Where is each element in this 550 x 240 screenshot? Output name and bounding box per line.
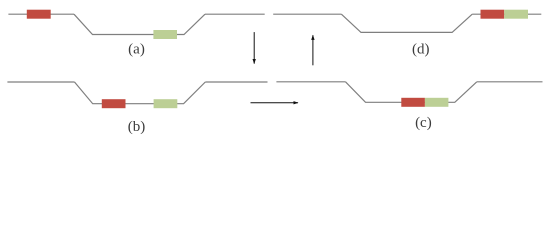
wire c-right — [477, 81, 543, 83]
svg-text:(a): (a) — [128, 41, 145, 57]
panel (b) — [7, 82, 267, 104]
green block a — [153, 30, 177, 39]
panel (d) — [273, 14, 541, 32]
red block a — [27, 10, 51, 19]
wire d-left — [273, 13, 341, 15]
arrow b to c (right) — [251, 102, 299, 104]
green block b — [154, 99, 178, 108]
arrow c to d (up) — [312, 35, 314, 65]
wire c-loop — [346, 82, 477, 103]
panel (a) — [8, 14, 264, 34]
wire a-left — [8, 13, 74, 15]
wire c-left — [276, 81, 345, 83]
wire d-loop — [341, 14, 472, 32]
svg-text:(d): (d) — [412, 41, 430, 57]
green block d — [504, 10, 528, 19]
wire d-right — [472, 13, 541, 15]
wire a-right — [205, 13, 265, 15]
svg-text:(b): (b) — [128, 119, 146, 135]
red block c — [401, 98, 425, 107]
red block b — [102, 99, 126, 108]
svg-text:(c): (c) — [415, 115, 432, 131]
arrow a to b (down) — [253, 32, 255, 64]
wire a-loop — [74, 14, 205, 34]
wire b-left — [7, 81, 74, 83]
wire b-right — [205, 81, 267, 83]
green block c — [425, 98, 449, 107]
panel (c) — [276, 82, 542, 103]
wire b-loop — [75, 82, 206, 104]
red block d — [481, 10, 505, 19]
